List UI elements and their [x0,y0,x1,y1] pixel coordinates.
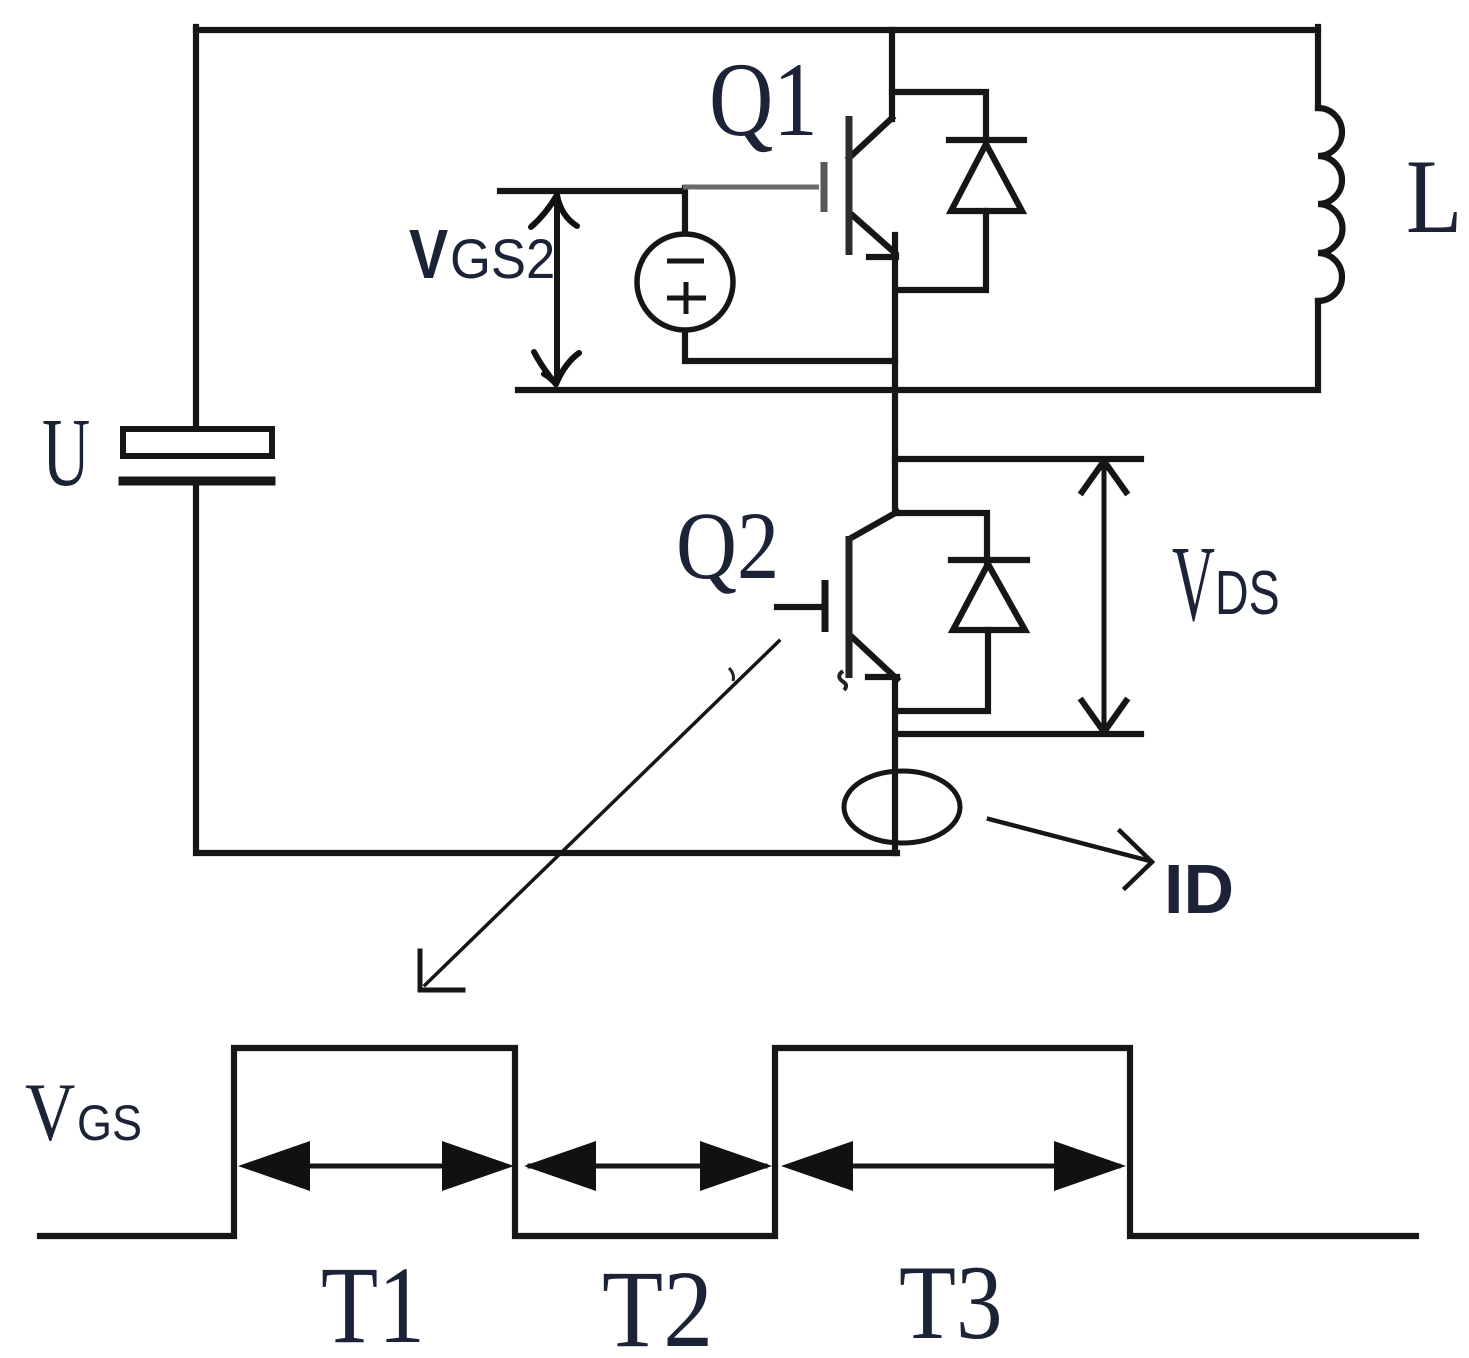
svg-text:GS2: GS2 [450,228,555,291]
svg-text:DS: DS [1215,557,1280,627]
svg-text:T1: T1 [321,1245,425,1358]
svg-text:GS: GS [77,1096,142,1152]
svg-text:L: L [1406,138,1462,255]
svg-text:V: V [1172,523,1215,643]
svg-text:Q2: Q2 [676,492,779,599]
svg-text:V: V [409,214,448,293]
svg-text:T3: T3 [899,1244,1003,1358]
svg-text:ID: ID [1164,850,1234,928]
svg-text:T2: T2 [602,1248,713,1358]
svg-text:V: V [25,1066,75,1158]
svg-text:Q1: Q1 [709,42,818,159]
svg-text:U: U [42,398,90,507]
